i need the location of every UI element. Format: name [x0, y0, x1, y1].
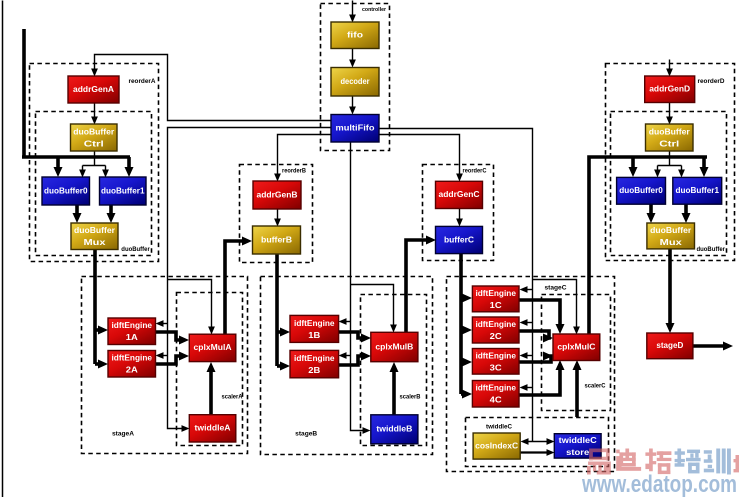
- svg-text:twiddleC: twiddleC: [486, 425, 513, 431]
- svg-text:idftEngine: idftEngine: [475, 319, 516, 329]
- svg-text:twiddleC: twiddleC: [559, 435, 597, 445]
- wire cplxMulA to bufferB: [225, 237, 252, 335]
- svg-text:duoBuffer: duoBuffer: [73, 127, 115, 137]
- wire external input horizontal: [22, 155, 130, 159]
- duoBuffer A region: [36, 112, 152, 256]
- wire duoBufferCtrl A split: [94, 152, 96, 166]
- wire duoBuffer1 D to mux: [682, 204, 691, 223]
- wire bufferB to idftEngine2B: [277, 362, 290, 371]
- svg-text:Mux: Mux: [660, 237, 682, 247]
- wire control to cplxMulB: [351, 285, 397, 333]
- svg-text:cosIndexC: cosIndexC: [475, 440, 518, 450]
- wire multiFifo stageA control trunk: [168, 128, 332, 432]
- svg-text:scalerA: scalerA: [222, 395, 244, 401]
- wire muxA to idftEngine2A: [95, 360, 108, 369]
- wire bufferC to idftEngine4C: [461, 390, 472, 399]
- wire bufferC to idftEngine2C: [461, 326, 472, 335]
- wire bufferC to idftEngine1C: [461, 294, 472, 303]
- svg-text:stageB: stageB: [295, 432, 318, 438]
- block idftEngine2C: [472, 317, 519, 343]
- svg-text:stageD: stageD: [656, 340, 683, 350]
- svg-text:addrGenD: addrGenD: [649, 84, 690, 94]
- svg-text:addrGenB: addrGenB: [257, 189, 298, 199]
- block cplxMulB: [371, 332, 418, 361]
- wire addrGenC to bufferC: [456, 209, 463, 227]
- block idftEngine1C: [472, 286, 519, 312]
- block duoBuffer0 D: [617, 177, 666, 204]
- svg-text:scalerC: scalerC: [585, 384, 607, 390]
- svg-text:2A: 2A: [126, 365, 138, 375]
- wire bufferB output trunk: [275, 254, 279, 366]
- wire multiFifo to addrGenB: [274, 135, 331, 182]
- svg-text:idftEngine: idftEngine: [475, 383, 516, 393]
- wire external input vertical: [22, 29, 26, 157]
- wire idftEngine2B to cplxMulB: [339, 352, 371, 366]
- reorderA region: [30, 64, 159, 262]
- svg-text:idftEngine: idftEngine: [294, 318, 335, 328]
- svg-text:idftEngine: idftEngine: [475, 350, 516, 360]
- wire duoBuffer0 D to mux: [647, 204, 656, 223]
- wire muxA to idftEngine1A: [95, 326, 108, 335]
- svg-text:3C: 3C: [490, 362, 502, 372]
- wire duoBufferCtrl A split bar: [83, 165, 106, 167]
- wire bufferB to idftEngine1B: [277, 328, 290, 337]
- block bufferB: [253, 226, 301, 254]
- svg-text:multiFifo: multiFifo: [336, 123, 375, 133]
- svg-text:Mux: Mux: [84, 237, 106, 247]
- block twiddleB: [371, 415, 418, 444]
- wire cosIndexC to twiddleC store: [521, 449, 555, 456]
- svg-text:reorderA: reorderA: [129, 79, 157, 85]
- svg-text:addrGenC: addrGenC: [439, 189, 480, 199]
- wire idftEngine1B to cplxMulB: [339, 332, 371, 343]
- svg-text:duoBuffer: duoBuffer: [650, 225, 692, 235]
- svg-text:1A: 1A: [126, 332, 138, 342]
- block idftEngine3C: [472, 349, 519, 375]
- block fifo: [331, 22, 379, 49]
- block duoBufferCtrl D: [646, 124, 694, 151]
- wire duoBuffer1 A to mux: [107, 205, 116, 223]
- svg-text:duoBuffer1: duoBuffer1: [101, 185, 145, 195]
- block duoBuffer1 A: [100, 177, 147, 205]
- stageC region: [447, 277, 615, 472]
- svg-text:store: store: [566, 447, 589, 457]
- wire addrGenA to duoBufferCtrl A: [91, 104, 98, 125]
- wire twiddleB to cplxMulB: [390, 362, 399, 415]
- svg-text:1B: 1B: [308, 330, 320, 340]
- svg-text:Ctrl: Ctrl: [84, 139, 104, 149]
- svg-text:2B: 2B: [308, 365, 320, 375]
- svg-text:fifo: fifo: [347, 30, 363, 40]
- svg-text:stageC: stageC: [545, 286, 568, 292]
- stageA region: [82, 277, 248, 454]
- svg-text:idftEngine: idftEngine: [475, 288, 516, 298]
- svg-text:twiddleB: twiddleB: [376, 424, 412, 434]
- wire duoBufferCtrl D split: [669, 152, 671, 166]
- svg-text:duoBuffer: duoBuffer: [74, 225, 116, 235]
- reorderD region: [606, 64, 735, 261]
- twiddleC region: [466, 418, 609, 467]
- watermark edatop: [581, 449, 739, 497]
- wire multiFifo to addrGenA: [91, 55, 331, 121]
- wire idftEngine3C to cplxMulC: [519, 352, 553, 363]
- block addrGenA: [68, 76, 119, 103]
- wire decoder to multiFifo: [349, 97, 356, 115]
- svg-text:cplxMulC: cplxMulC: [557, 342, 595, 352]
- block idftEngine2B: [290, 350, 339, 377]
- svg-text:idftEngine: idftEngine: [294, 353, 335, 363]
- svg-text:1C: 1C: [490, 300, 502, 310]
- wire duoBuffer0 A to mux: [73, 205, 82, 223]
- wire idftEngine2C to cplxMulC: [519, 331, 553, 343]
- wire data to duoBuffer0 D: [629, 157, 638, 177]
- reorderB region: [240, 165, 313, 263]
- wire twiddleC store to cplxMulC: [573, 360, 582, 417]
- block duoBufferMux D: [647, 223, 695, 249]
- wire fifo to decoder: [349, 49, 356, 68]
- block multiFifo: [331, 115, 379, 143]
- wire ctrl to duoBuffer1 A: [102, 166, 109, 178]
- wire multiFifo stageC control trunk: [380, 129, 533, 442]
- wire ctrl to duoBuffer0 A: [79, 166, 86, 178]
- svg-text:idftEngine: idftEngine: [112, 353, 153, 363]
- svg-text:duoBuffer: duoBuffer: [697, 247, 726, 253]
- wire muxA output trunk: [93, 250, 97, 364]
- svg-text:duoBuffer: duoBuffer: [121, 247, 150, 253]
- scalerC region: [542, 295, 611, 411]
- svg-text:addrGenA: addrGenA: [73, 84, 114, 94]
- svg-text:controller: controller: [362, 7, 386, 13]
- svg-text:idftEngine: idftEngine: [112, 320, 153, 330]
- wire control to idftEngine1A: [156, 320, 168, 327]
- block idftEngine1B: [290, 315, 339, 342]
- block duoBuffer0 A: [42, 177, 90, 205]
- wire control to idftEngine3C: [520, 352, 533, 359]
- wire bufferC output trunk: [459, 254, 463, 394]
- wire input to duoBuffer1 A: [125, 157, 134, 177]
- svg-text:www.edatop.com: www.edatop.com: [581, 471, 737, 497]
- wire twiddleA to cplxMulA: [207, 362, 216, 415]
- svg-text:decoder: decoder: [341, 76, 371, 86]
- block cplxMulA: [189, 334, 236, 361]
- wire control to idftEngine4C: [520, 384, 533, 391]
- wire control to idftEngine2A: [156, 352, 168, 359]
- svg-text:stageA: stageA: [112, 432, 135, 438]
- block addrGenB: [253, 181, 301, 209]
- svg-text:duoBuffer: duoBuffer: [649, 127, 691, 137]
- block duoBufferCtrl A: [71, 124, 118, 151]
- block twiddleA: [189, 415, 236, 442]
- block duoBufferMux A: [71, 223, 118, 250]
- wire fifo input: [349, 1, 356, 23]
- wire addrGenD input: [666, 60, 673, 77]
- block bufferC: [436, 226, 483, 253]
- block duoBuffer1 D: [673, 177, 722, 204]
- svg-text:duoBuffer0: duoBuffer0: [44, 185, 88, 195]
- wire cplxMulC to duoBuffers D: [589, 157, 707, 334]
- wire idftEngine2A to cplxMulA: [156, 352, 189, 365]
- wire page left border: [2, 1, 4, 497]
- block cplxMulC: [553, 334, 600, 361]
- wire idftEngine1A to cplxMulA: [156, 332, 189, 345]
- svg-text:reorderB: reorderB: [282, 169, 307, 175]
- wire multiFifo stageB control trunk: [351, 143, 371, 434]
- wire control to cplxMulA: [168, 280, 215, 335]
- block twiddleC store: [554, 434, 601, 458]
- wire cplxMulB to bufferC: [406, 236, 436, 333]
- wire ctrl to duoBuffer0 D: [654, 166, 661, 178]
- svg-text:reorderC: reorderC: [463, 169, 488, 175]
- svg-text:bufferC: bufferC: [444, 234, 474, 244]
- wire control to idftEngine1B: [339, 318, 351, 325]
- wire muxD to stageD: [666, 249, 675, 333]
- wire idftEngine1C to cplxMulC: [519, 300, 565, 334]
- svg-text:duoBuffer0: duoBuffer0: [619, 185, 663, 195]
- wire input to duoBuffer0 A: [54, 157, 63, 177]
- svg-text:bufferB: bufferB: [261, 234, 292, 244]
- scalerA region: [177, 293, 244, 446]
- wire duoBufferCtrl D split bar: [658, 165, 682, 167]
- wire addrGenD to duoBufferCtrl D: [666, 103, 673, 125]
- svg-text:4C: 4C: [490, 395, 502, 405]
- block addrGenC: [436, 181, 483, 208]
- svg-text:duoBuffer1: duoBuffer1: [676, 185, 720, 195]
- svg-text:scalerB: scalerB: [400, 395, 422, 401]
- wire data to duoBuffer1 D: [700, 157, 709, 177]
- svg-text:Ctrl: Ctrl: [659, 139, 679, 149]
- wire control to cplxMulC: [533, 280, 580, 335]
- wire control to idftEngine1C: [520, 286, 533, 293]
- svg-text:2C: 2C: [490, 331, 502, 341]
- svg-text:cplxMulA: cplxMulA: [194, 342, 232, 352]
- block addrGenD: [645, 76, 695, 103]
- wire control to cosIndexC and twiddleC store: [521, 438, 555, 445]
- block idftEngine1A: [108, 318, 156, 345]
- wire control to idftEngine2B: [339, 352, 351, 359]
- wire multiFifo to addrGenC: [380, 135, 463, 182]
- scalerB region: [361, 295, 427, 446]
- wire control to idftEngine2C: [520, 319, 533, 326]
- svg-text:reorderD: reorderD: [698, 79, 726, 85]
- block idftEngine2A: [108, 351, 156, 378]
- block idftEngine4C: [472, 381, 519, 408]
- block stageD: [647, 333, 693, 359]
- svg-text:cplxMulB: cplxMulB: [375, 341, 413, 351]
- wire ctrl to duoBuffer1 D: [678, 166, 685, 178]
- svg-text:twiddleA: twiddleA: [195, 423, 231, 433]
- block cosIndexC: [473, 433, 520, 459]
- duoBuffer D region: [611, 112, 727, 256]
- wire bufferC to idftEngine3C: [461, 358, 472, 367]
- block decoder: [331, 68, 379, 97]
- wire idftEngine4C to cplxMulC: [519, 360, 565, 395]
- wire stageD output: [693, 342, 733, 351]
- stageB region: [261, 277, 433, 455]
- reorderC region: [423, 165, 494, 261]
- controller region: [321, 4, 390, 151]
- wire addrGenB to bufferB: [274, 210, 281, 227]
